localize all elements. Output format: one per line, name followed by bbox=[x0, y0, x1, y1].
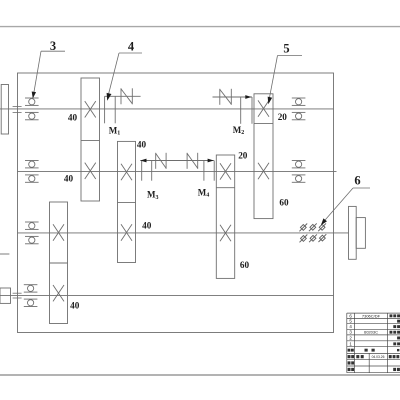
svg-text:40: 40 bbox=[64, 174, 74, 184]
svg-text:M3: M3 bbox=[147, 190, 159, 201]
svg-text:7306C/DF: 7306C/DF bbox=[362, 313, 381, 318]
svg-text:04.03.26: 04.03.26 bbox=[372, 355, 385, 359]
svg-text:5: 5 bbox=[283, 42, 289, 56]
svg-text:5: 5 bbox=[349, 319, 352, 324]
svg-text:3: 3 bbox=[50, 39, 56, 53]
svg-text:60203C: 60203C bbox=[364, 330, 378, 335]
svg-text:40: 40 bbox=[70, 300, 80, 310]
svg-text:M4: M4 bbox=[198, 187, 210, 198]
svg-text:40: 40 bbox=[137, 140, 147, 150]
svg-text:6: 6 bbox=[354, 174, 360, 188]
svg-text:20: 20 bbox=[278, 112, 288, 122]
svg-text:M2: M2 bbox=[233, 125, 245, 136]
svg-text:40: 40 bbox=[68, 113, 78, 123]
svg-text:1: 1 bbox=[349, 341, 352, 346]
svg-text:4: 4 bbox=[349, 324, 352, 329]
svg-text:M1: M1 bbox=[109, 126, 121, 137]
svg-text:2: 2 bbox=[349, 335, 352, 340]
svg-text:40: 40 bbox=[142, 221, 152, 231]
svg-text:60: 60 bbox=[279, 198, 289, 208]
svg-text:60: 60 bbox=[240, 260, 250, 270]
svg-text:6: 6 bbox=[349, 313, 352, 318]
svg-text:3: 3 bbox=[349, 330, 352, 335]
svg-text:4: 4 bbox=[128, 40, 135, 54]
svg-text:20: 20 bbox=[238, 150, 248, 160]
